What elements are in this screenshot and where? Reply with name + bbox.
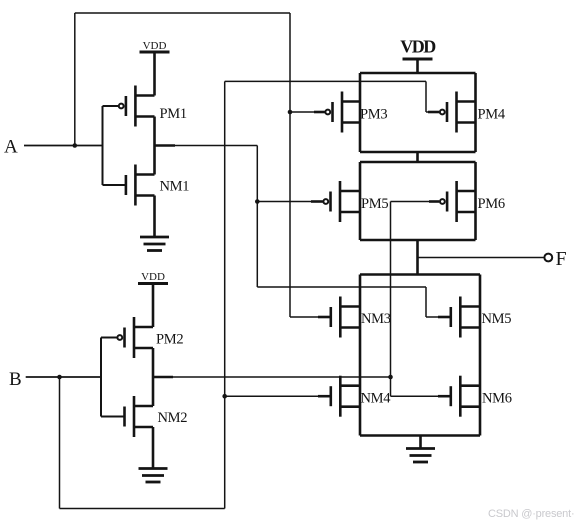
wire net Bbar horizontal [172,376,391,378]
wire NM2 source to ground [152,427,155,469]
transistor NM1 [126,165,155,206]
wire net A: top horizontal [75,12,290,14]
terminal output F [544,254,552,262]
node junction Abar to PM5 gate [255,199,260,204]
svg-text:CSDN @·present·: CSDN @·present· [488,508,574,520]
transistor PM1 [119,86,155,127]
svg-text:VDD: VDD [141,271,165,283]
svg-text:PM1: PM1 [160,106,187,122]
node junction A net to PM3 gate [288,110,293,115]
transistor NM5 [451,297,480,338]
svg-text:NM2: NM2 [158,410,188,426]
wire PM3/PM4 box rails [360,73,476,152]
node junction Bbar to PM6/NM6 gate column [388,375,393,380]
transistor NM3 [331,297,360,338]
wire net Bbar vertical [390,202,392,397]
wire net B: vertical down from input [59,377,61,509]
wire NM4 gate [225,395,318,397]
svg-text:A: A [4,137,18,158]
transistor PM3 [325,92,360,133]
node A junction on input wire [73,143,78,148]
wire PM5 gate [257,201,311,203]
wire VDD to PM1 source [153,52,156,96]
svg-text:PM4: PM4 [478,107,506,123]
wire PM2 drain to NM2 drain (output node) [152,348,155,406]
ground (inverter 1) [140,237,169,251]
transistor NM2 [125,396,154,437]
wire net B: top horizontal to PM4 [225,80,426,82]
node junction B net to NM4 gate [222,394,227,399]
wire net B: long vertical up [224,81,226,508]
ground (inverter 2) [139,469,168,483]
wire PM1 drain to NM1 drain (output node) [153,117,156,175]
wire net B: drop to PM4 gate [425,81,427,112]
node B junction on input wire [57,375,62,380]
wire net B: bottom horizontal [60,508,225,510]
svg-text:PM3: PM3 [360,107,387,123]
svg-text:NM6: NM6 [482,391,512,407]
wire PM4 gate [426,111,429,113]
ground (NMOS network) [406,449,435,463]
wire PM3/PM4 drain to PM5/PM6 source [416,152,419,162]
wire NM5 gate [426,316,439,318]
transistor NM6 [451,376,480,417]
wire PM6 gate [391,201,431,203]
wire PM block to NM block (output node) [416,240,419,275]
svg-text:NM5: NM5 [482,311,512,327]
wire inverter2 gate bus [101,338,126,417]
transistor NM4 [331,376,360,417]
wire NM6 gate [391,395,440,397]
wire B input [26,376,101,378]
wire NM3 gate [290,316,318,318]
svg-text:PM2: PM2 [156,332,183,348]
wire net Abar drop to NM5 gate [425,287,427,317]
wire VDD to PM2 source [152,284,155,328]
transistor PM2 [117,317,153,358]
wire net A: right vertical down to NM3 gate [289,13,291,317]
wire inverter1 output stub [155,144,176,147]
wire PM3 gate [290,111,314,113]
svg-text:VDD: VDD [143,40,167,52]
wire net A: left vertical up from input [74,13,76,146]
wire net Abar horizontal [174,145,257,147]
transistor PM4 [440,92,476,133]
svg-text:PM6: PM6 [478,196,505,212]
wire VDD stem [416,59,419,73]
wire A input [24,145,103,147]
wire NMOS box rails [360,275,480,436]
wire inverter1 gate bus [103,106,128,185]
svg-text:F: F [556,248,567,270]
svg-text:NM3: NM3 [361,311,391,327]
wire net Abar vertical [256,146,258,288]
svg-text:VDD: VDD [400,37,436,57]
wire NMOS source to ground [419,436,422,449]
wire net Abar lower horizontal [257,286,426,288]
wire PM5/PM6 box rails [360,162,476,240]
transistor PM6 [440,181,476,222]
transistor PM5 [323,181,360,222]
svg-text:PM5: PM5 [361,196,388,212]
wire NM1 source to ground [153,196,156,238]
wire output F [418,257,545,259]
svg-text:NM4: NM4 [361,391,392,407]
svg-text:NM1: NM1 [160,179,190,195]
svg-text:B: B [9,369,22,390]
wire inverter2 output stub [153,376,173,379]
